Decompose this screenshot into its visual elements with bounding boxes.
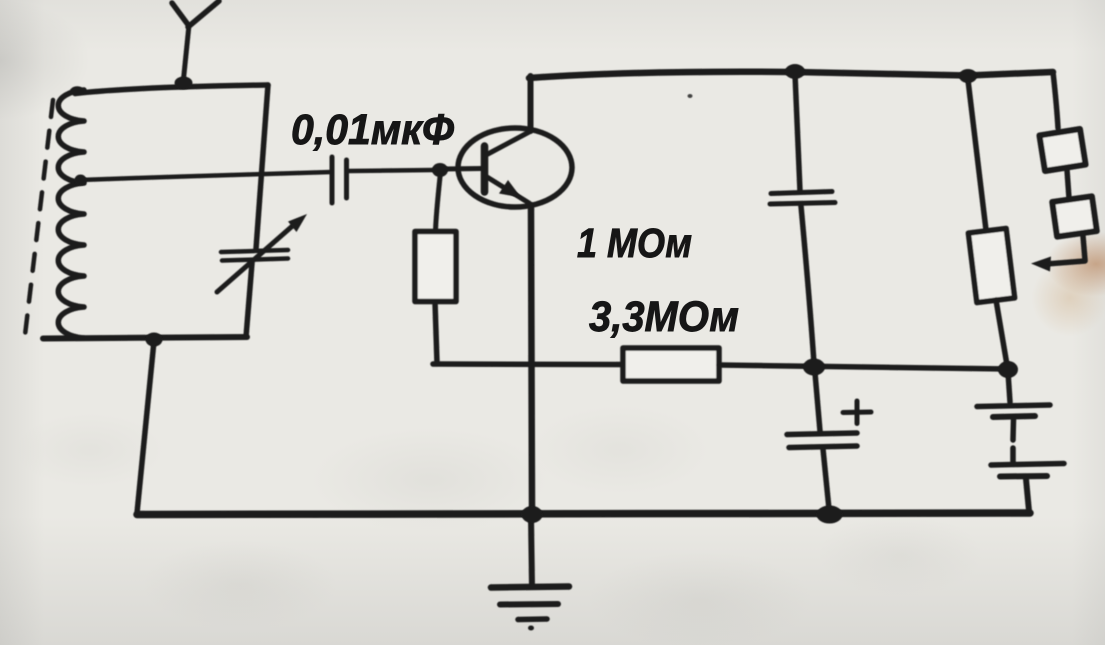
- svg-text:3,3МОм: 3,3МОм: [589, 293, 739, 341]
- svg-text:1 МОм: 1 МОм: [577, 220, 692, 266]
- svg-text:0,01мкФ: 0,01мкФ: [291, 106, 454, 154]
